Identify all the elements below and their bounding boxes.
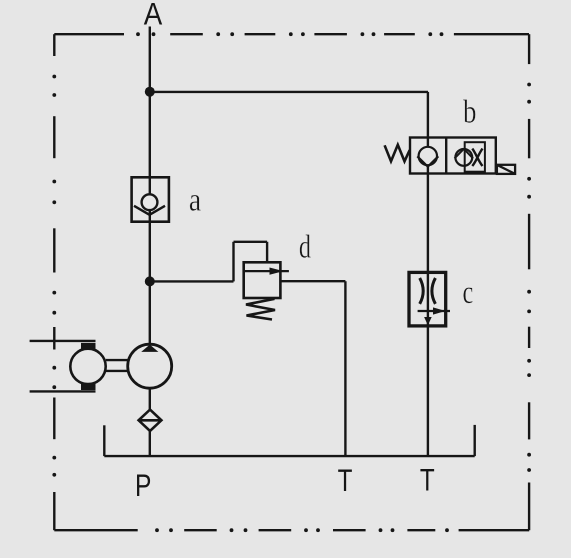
svg-text:c: c (462, 275, 473, 311)
relief valve d spring (246, 299, 275, 320)
enclosure dash-dot border right (527, 34, 531, 530)
wire: filter to tank (149, 431, 151, 456)
pump triangle (141, 345, 158, 352)
svg-text:P: P (135, 467, 151, 503)
tank right tick (474, 425, 476, 456)
wire: valve d drain vertical to tank (344, 281, 346, 456)
svg-text:a: a (189, 182, 201, 219)
throttle valve c arrowheads (433, 307, 446, 314)
wire: valve b inlet vertical (427, 92, 429, 147)
wire: A trunk upper segment (149, 27, 151, 195)
wire: A trunk lower segment to pump (149, 210, 151, 345)
pump (128, 344, 172, 388)
node junction upper (145, 87, 155, 97)
shaft line lower (106, 370, 128, 372)
svg-text:d: d (299, 229, 312, 265)
svg-text:b: b (463, 94, 476, 130)
valve b solenoid (497, 165, 515, 174)
valve b spring (385, 145, 410, 162)
wire: motor supply line lower (30, 390, 96, 392)
svg-text:A: A (144, 0, 163, 32)
wire: pump to filter (149, 388, 151, 409)
motor (70, 349, 105, 384)
wire: top branch horizontal to valve b (150, 91, 428, 93)
filter (139, 410, 162, 431)
wire: valve d drain horizontal (280, 280, 345, 282)
enclosure dash-dot border bottom (54, 528, 529, 532)
wire: pilot drop into valve d (266, 242, 268, 262)
enclosure dash-dot border left (52, 34, 56, 530)
valve b inner orifice box (465, 142, 485, 172)
motor brush upper (81, 343, 96, 349)
wire: pilot top horizontal (234, 241, 268, 243)
node junction lower (145, 276, 155, 286)
valve b left check circle (419, 147, 437, 165)
valve b throttle X (472, 149, 482, 166)
valve b (385, 138, 515, 174)
svg-text:T: T (338, 463, 353, 498)
wire: valve b outlet down through c to tank (427, 166, 429, 456)
wire: pilot branch horizontal (150, 280, 234, 282)
relief valve d (244, 262, 289, 319)
tank left tick (103, 425, 105, 456)
wire: tank line (104, 455, 474, 457)
motor brush lower (81, 384, 96, 390)
wire: motor supply line upper (30, 340, 96, 342)
enclosure dash-dot border top (54, 32, 529, 36)
throttle valve c (409, 272, 450, 326)
valve b right check circle (455, 149, 472, 166)
check valve a (132, 177, 169, 221)
relief valve d arrowhead (270, 268, 284, 275)
wire: pilot riser (232, 242, 234, 282)
svg-text:T: T (420, 463, 435, 498)
shaft line upper (106, 359, 128, 361)
